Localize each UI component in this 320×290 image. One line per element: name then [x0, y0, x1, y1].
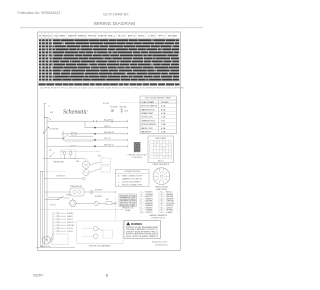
svg-text:LEGEND NOTES: LEGEND NOTES: [124, 171, 140, 173]
svg-text:5.4 A: 5.4 A: [161, 123, 166, 126]
svg-text:SEL SW: SEL SW: [120, 106, 127, 108]
svg-text:Publication No. 5995543623: Publication No. 5995543623: [18, 11, 61, 15]
svg-text:ELECTRICAL RATING CHART: ELECTRICAL RATING CHART: [145, 97, 172, 100]
svg-text:60 HZ: 60 HZ: [103, 103, 110, 105]
svg-text:WTR LVL SWITCH: WTR LVL SWITCH: [141, 106, 158, 108]
svg-text:BLU-OR 14: BLU-OR 14: [104, 119, 113, 121]
svg-text:Wiring Schematic: Wiring Schematic: [152, 241, 168, 244]
svg-text:WASH SP: WASH SP: [68, 35, 77, 38]
svg-text:B7VL7N: B7VL7N: [50, 205, 56, 207]
svg-text:WASH MOTOR: WASH MOTOR: [141, 108, 155, 111]
svg-text:0.9 A: 0.9 A: [161, 112, 166, 115]
svg-text:GLTF2940FS0: GLTF2940FS0: [103, 11, 129, 16]
svg-text:TIMER: TIMER: [59, 36, 66, 38]
svg-text:KRDL UU9NT 8LSXBRC B8M8 P4: KRDL UU9NT 8LSXBRC B8M8 P4: [126, 236, 158, 238]
svg-text:AGIT LO: AGIT LO: [128, 35, 136, 38]
svg-text:X: X: [149, 154, 150, 156]
svg-text:TIMER MOTOR: TIMER MOTOR: [141, 120, 155, 122]
svg-text:9S653 SV: 9S653 SV: [70, 146, 77, 148]
svg-text:L1: L1: [49, 105, 51, 107]
svg-text:DOOR LOCK: DOOR LOCK: [141, 117, 153, 119]
svg-text:Schematic: Schematic: [63, 110, 88, 116]
svg-text:■: ■: [118, 175, 119, 177]
svg-text:(REAR VIEW): (REAR VIEW): [156, 188, 168, 191]
svg-text:RZWV CU: RZWV CU: [67, 222, 75, 224]
svg-text:CAM CHART: CAM CHART: [155, 137, 167, 140]
svg-text:WHT-BK 14: WHT-BK 14: [104, 144, 114, 146]
svg-text:RED-WH 10: RED-WH 10: [104, 132, 114, 134]
svg-text:DETAIL: DETAIL: [125, 209, 131, 212]
svg-text:CABINET GROUND SC: CABINET GROUND SC: [122, 177, 143, 180]
svg-text:WIRING DIAGRAM: WIRING DIAGRAM: [94, 21, 136, 27]
svg-text:X: X: [149, 157, 150, 159]
svg-text:3 W: 3 W: [161, 120, 165, 122]
svg-text:WIRE CONNECTOR PT: WIRE CONNECTOR PT: [122, 175, 143, 177]
svg-text:HI SPD: HI SPD: [138, 36, 145, 38]
svg-text:DRN CL: DRN CL: [108, 36, 115, 38]
svg-text:VALVE COLD: VALVE COLD: [141, 127, 153, 130]
svg-text:TIMER SEQUENCE: TIMER SEQUENCE: [152, 164, 170, 166]
svg-text:DF08T P: DF08T P: [67, 219, 73, 221]
svg-text:LOAD POWER: LOAD POWER: [141, 101, 154, 104]
svg-text:CYCL: CYCL: [54, 36, 59, 38]
svg-text:NOWMI1: NOWMI1: [67, 213, 74, 215]
svg-text:4.2 A: 4.2 A: [161, 105, 166, 108]
svg-text:(CONTROL): (CONTROL): [132, 157, 142, 159]
svg-text:0.4 A: 0.4 A: [161, 131, 166, 134]
svg-text:UOF9J0: UOF9J0: [67, 231, 73, 233]
svg-text:0.4 A: 0.4 A: [161, 127, 166, 130]
svg-text:YEL 16: YEL 16: [104, 138, 110, 140]
svg-text:10 — ◦ X592 I: 10 — ◦ X592 I: [141, 212, 153, 214]
svg-text:120 VAC: 120 VAC: [161, 101, 169, 104]
svg-text:WARNING: WARNING: [131, 223, 142, 226]
svg-text:VALVE HOT: VALVE HOT: [141, 131, 152, 134]
svg-text:DRIVE MOTOR ASSEMBLY: DRIVE MOTOR ASSEMBLY: [89, 244, 112, 247]
svg-text:BUZZER: BUZZER: [95, 196, 103, 198]
svg-text:134556700 p4: 134556700 p4: [155, 244, 169, 246]
svg-text:PRESSURE SW: PRESSURE SW: [70, 186, 82, 188]
svg-text:W0F6 8M: W0F6 8M: [67, 225, 75, 227]
svg-text:8.6 A: 8.6 A: [161, 108, 166, 111]
svg-text:SPLICE CONNECTION: SPLICE CONNECTION: [122, 184, 143, 186]
svg-text:LO SPD: LO SPD: [148, 36, 156, 38]
svg-text:4K64RPS9 PS4ETPS VFIJO0 JNE22W: 4K64RPS9 PS4ETPS VFIJO0 JNE22W52D 20B06 …: [40, 88, 185, 90]
svg-text:S2X0OJFL OOA7L: S2X0OJFL OOA7L: [120, 204, 136, 207]
svg-text:TH FUSE: TH FUSE: [110, 106, 118, 108]
svg-text:X: X: [149, 151, 150, 153]
svg-text:X: X: [149, 145, 150, 147]
svg-text:OFF CY: OFF CY: [158, 36, 166, 38]
svg-text:X: X: [149, 142, 150, 144]
svg-text:X: X: [149, 148, 150, 150]
svg-text:SPIN SOLENOID: SPIN SOLENOID: [141, 124, 156, 126]
svg-text:1.2 A: 1.2 A: [161, 116, 166, 119]
svg-text:DRAIN PUMP: DRAIN PUMP: [141, 112, 154, 115]
svg-text:FILL HT: FILL HT: [118, 36, 126, 38]
svg-text:CONNECTOR J2: CONNECTOR J2: [151, 217, 165, 219]
svg-text:02/07: 02/07: [33, 273, 44, 278]
svg-text:●: ●: [118, 184, 119, 186]
svg-text:DOOR SW: DOOR SW: [50, 129, 59, 131]
svg-text:PUMP: PUMP: [66, 194, 72, 196]
svg-text:20 — ◦ LJ6HD: 20 — ◦ LJ6HD: [161, 212, 173, 214]
svg-text:QUICK DISCONNECT: QUICK DISCONNECT: [122, 181, 142, 183]
svg-text:FJ1C1B: FJ1C1B: [67, 228, 73, 230]
svg-text:RINSE A: RINSE A: [78, 35, 86, 38]
svg-text:ORN 12: ORN 12: [104, 126, 111, 128]
svg-text:SOAK PR: SOAK PR: [98, 35, 107, 38]
svg-text:SPIN DR: SPIN DR: [88, 36, 96, 38]
